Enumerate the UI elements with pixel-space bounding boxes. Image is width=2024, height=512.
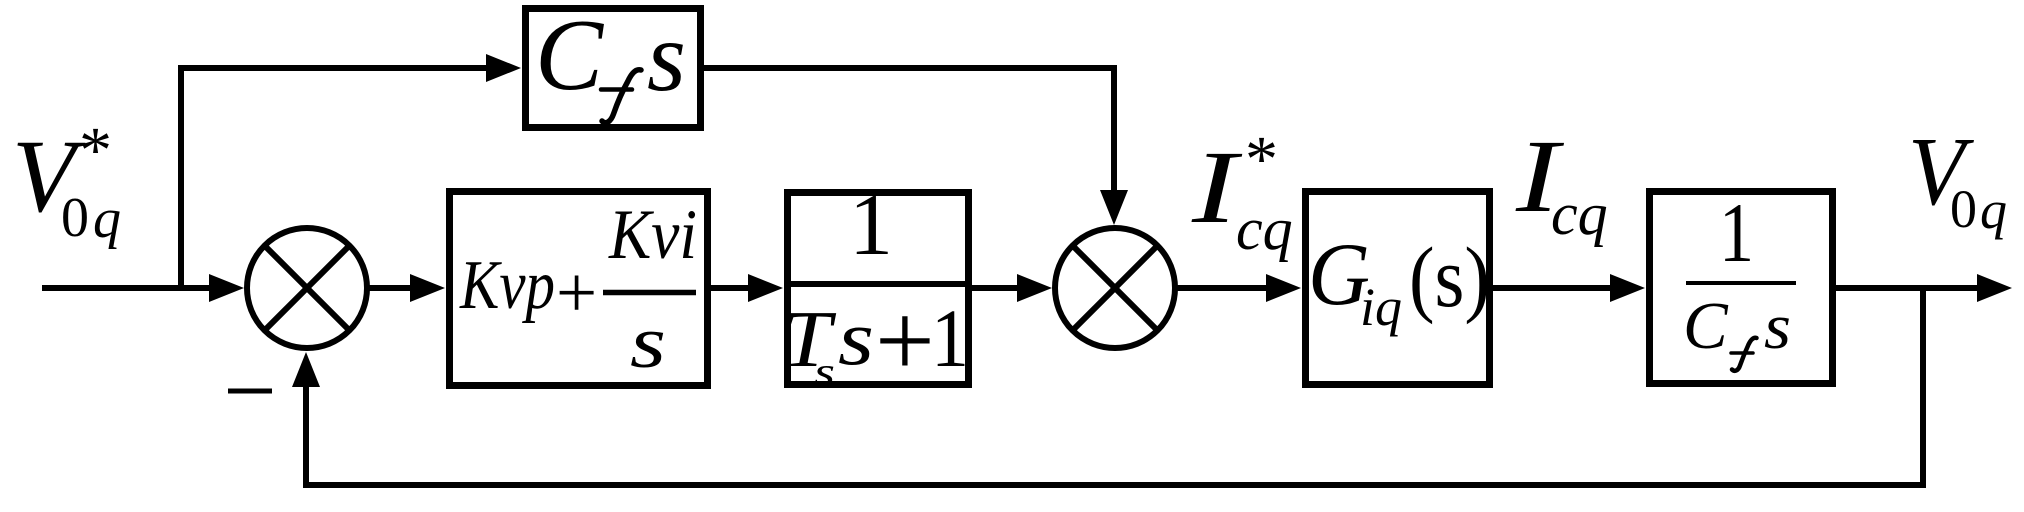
- arrowhead output: [1977, 274, 2012, 302]
- block delay 1/(Ts s+1): [782, 177, 972, 399]
- label I*cq: [1191, 123, 1293, 262]
- node branch point input: [178, 68, 184, 291]
- wire branch to Cf s block: [178, 65, 487, 71]
- block PI Kvp+Kvi/s: [450, 192, 708, 386]
- wire feedback bottom: [303, 387, 1926, 488]
- wire summer S2 to Giq block: [1175, 285, 1268, 291]
- arrowhead into delay block: [748, 274, 783, 302]
- summer S1: [247, 228, 367, 348]
- arrowhead into summer S1: [209, 274, 244, 302]
- svg-text:C: C: [1683, 289, 1729, 363]
- svg-text:s: s: [630, 302, 666, 384]
- svg-text:cq: cq: [1236, 196, 1293, 262]
- wire PI block to delay block: [711, 285, 750, 291]
- svg-text:1: 1: [1719, 186, 1754, 280]
- minus sign: [228, 389, 272, 394]
- label V0q output: [1908, 118, 2007, 240]
- wire Cf s block to summer S2: [701, 65, 1114, 192]
- svg-text:Kvp: Kvp: [459, 247, 555, 324]
- svg-text:C: C: [535, 0, 604, 112]
- arrowhead into integrator block: [1610, 274, 1645, 302]
- svg-text:*: *: [1245, 123, 1278, 196]
- svg-text:1: 1: [931, 292, 969, 384]
- block integrator 1/(Cf s): [1650, 186, 1833, 384]
- svg-text:*: *: [79, 114, 112, 187]
- svg-text:1: 1: [849, 177, 893, 274]
- arrowhead into summer S1 bottom: [292, 352, 320, 387]
- block Cf s: [526, 0, 701, 128]
- svg-text:0: 0: [1950, 179, 1977, 239]
- label Icq: [1515, 119, 1608, 247]
- svg-text:s: s: [814, 349, 835, 394]
- svg-text:I: I: [1191, 130, 1243, 245]
- svg-text:(s): (s): [1409, 229, 1490, 325]
- svg-text:iq: iq: [1360, 277, 1402, 337]
- svg-text:cq: cq: [1551, 181, 1608, 247]
- arrowhead into PI block: [410, 274, 445, 302]
- svg-text:Kvi: Kvi: [608, 196, 697, 274]
- wire output: [1836, 285, 1978, 291]
- svg-text:q: q: [93, 188, 121, 250]
- wire input main line: [42, 285, 212, 291]
- summer S2: [1055, 228, 1175, 348]
- label V*0q input: [12, 114, 121, 250]
- wire delay block to summer S2: [972, 285, 1020, 291]
- wire summer S1 to PI block: [367, 285, 412, 291]
- block Giq(s): [1306, 192, 1491, 385]
- svg-text:q: q: [1980, 180, 2007, 240]
- svg-text:+: +: [556, 252, 597, 333]
- svg-text:s: s: [1764, 291, 1791, 363]
- svg-text:s: s: [838, 294, 874, 381]
- svg-text:+: +: [875, 282, 935, 399]
- node feedback branch: [1920, 285, 1926, 488]
- arrowhead into summer S2 top: [1100, 190, 1128, 225]
- arrowhead into Giq block: [1266, 274, 1301, 302]
- svg-text:0: 0: [61, 187, 89, 249]
- wire Giq block to integrator block: [1493, 285, 1612, 291]
- svg-text:s: s: [647, 1, 686, 112]
- arrowhead into summer S2 left: [1017, 274, 1052, 302]
- arrowhead into Cf s block: [486, 54, 521, 82]
